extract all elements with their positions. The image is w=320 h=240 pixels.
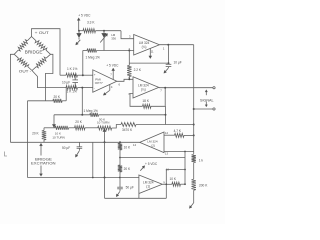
svg-text:12: 12 [165,131,169,135]
svg-text:1 k: 1 k [199,158,204,162]
svg-text:10 µF: 10 µF [62,80,70,84]
svg-text:OP77: OP77 [95,81,103,85]
svg-text:18 K: 18 K [142,99,149,103]
svg-text:EXCITATION: EXCITATION [31,161,56,165]
svg-text:1 Meg 1%: 1 Meg 1% [86,55,101,59]
svg-text:11: 11 [151,49,154,53]
svg-text:(¼): (¼) [141,87,146,91]
svg-text:10 K: 10 K [170,177,177,181]
svg-text:50 µF: 50 µF [62,146,70,150]
svg-text:13: 13 [165,152,169,156]
svg-text:OUT -: OUT - [19,68,32,73]
svg-text:(2): (2) [151,144,155,148]
svg-text:336: 336 [111,36,116,40]
svg-text:BRIDGE: BRIDGE [25,50,43,55]
svg-text:10 K: 10 K [124,145,131,149]
svg-text:+ OUT: + OUT [35,30,50,35]
svg-text:SIGNAL: SIGNAL [200,98,214,102]
svg-text:+: + [94,73,96,77]
svg-text:20 K: 20 K [124,167,131,171]
svg-text:20 K: 20 K [54,95,61,99]
svg-text:+ 5 VDC: + 5 VDC [106,64,119,68]
svg-text:3.3 K: 3.3 K [87,20,95,24]
svg-text:1 Meg 1%: 1 Meg 1% [84,109,99,113]
svg-text:+ 5 VDC: + 5 VDC [78,14,91,18]
svg-text:4.7 K: 4.7 K [174,129,182,133]
svg-text:+ 5 VDC: + 5 VDC [145,162,158,166]
svg-text:10 TURN: 10 TURN [97,121,109,125]
svg-text:20 K: 20 K [32,132,39,136]
svg-text:3470 K: 3470 K [122,128,133,132]
svg-text:10 µF: 10 µF [174,60,182,64]
svg-text:14: 14 [133,143,137,147]
svg-text:(¼): (¼) [142,45,147,49]
svg-text:(1): (1) [146,184,150,188]
svg-text:1 K 1%: 1 K 1% [67,67,77,71]
svg-text:50 µF: 50 µF [126,185,134,189]
svg-text:20 K: 20 K [75,120,82,124]
svg-text:2.2 K: 2.2 K [134,68,142,72]
svg-text:1 K 1%: 1 K 1% [67,90,77,94]
svg-text:200 K: 200 K [199,183,208,187]
svg-text:-: - [94,86,95,90]
svg-text:10 TURN: 10 TURN [52,135,64,139]
